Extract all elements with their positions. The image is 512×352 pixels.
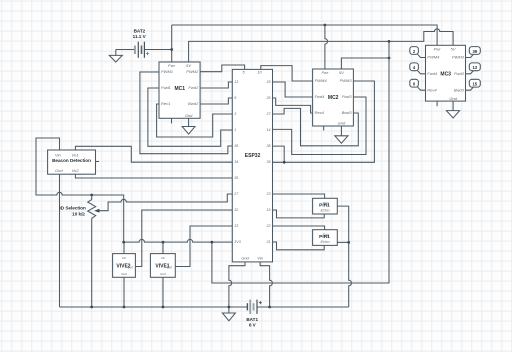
svg-text:BAT2: BAT2 [134,28,146,33]
svg-text:Out: Out [167,265,172,269]
node flag 4 (MC3 Fwd4) [410,63,426,74]
resistor R1 ID Selection potentiometer [60,194,233,307]
ground (ESP32 / BAT1) [222,313,235,321]
svg-text:1: 1 [234,128,236,132]
op-amp MC1 (motor controller box) [159,62,200,118]
wire MC1 Fwd2 to ESP32 pin 13 [200,82,232,88]
node junction BAT1+ / ESP32 Vin [268,306,271,309]
svg-text:PWM2: PWM2 [186,69,199,74]
wire ESP32 Gnd to ground rail (hops 3V3 feed) [229,262,245,313]
svg-text:Vo2: Vo2 [72,168,80,173]
wire VIVE2 Vin stub [123,242,125,254]
svg-text:MC2: MC2 [328,95,339,101]
svg-text:Bwd3: Bwd3 [342,110,353,115]
wire MC2 Pwr riser (hops 5V rail) [325,25,328,69]
node junction VIVE1 Gnd [162,306,165,309]
svg-text:PWM3: PWM3 [340,78,353,83]
svg-text:BAT1: BAT1 [246,317,258,322]
svg-text:21: 21 [266,240,271,244]
node junction MC2 5V / spine [388,57,391,60]
svg-text:Fwd2: Fwd2 [188,85,199,90]
node junction MC2 Pwr on 11.1V rail [324,24,327,27]
svg-text:Pwr: Pwr [434,46,442,51]
svg-text:5V: 5V [339,70,344,75]
op-amp VIVE2 (sensor box) [113,254,136,278]
svg-text:Rev4: Rev4 [427,87,437,92]
node flag 15 (MC3 Bwd3) [466,79,481,90]
op-amp MC3 (motor controller box) [426,45,466,101]
svg-text:Bwd2: Bwd2 [188,101,199,106]
ground (MC2) [335,136,348,143]
wire Beacon Gnd down to ground rail [59,174,61,307]
wire Beacon Vin loop to pot top (hops Gnd wire) [36,138,124,242]
svg-text:PWM3: PWM3 [452,55,465,60]
svg-text:23: 23 [266,192,271,196]
wire ground rail (bottom) [60,306,349,308]
svg-text:Fwd3: Fwd3 [454,71,465,76]
wire MC1 PWM1 to ESP32 pin 36 [140,72,232,154]
wire MC2 unconnected stub [323,126,325,131]
wire ESP32 pin 38 tie [273,146,285,162]
wire VIVE2 Out to ESP32 pin 32 [135,210,232,267]
wire PIR Vcc down to 6V rail (hops 3V3 feed) [349,242,352,307]
wire MC3 unconnected stub [436,101,438,106]
svg-text:5V: 5V [451,46,456,51]
wire MC1 Gnd stub [188,118,190,126]
svg-text:Fwd3: Fwd3 [342,94,353,99]
svg-text:Pwr: Pwr [321,70,329,75]
wire MC1 5V to 5V rail to MC3 5V (hop at MC3 Pwr riser) [189,29,454,62]
svg-text:Vin: Vin [257,256,263,261]
wire ESP32 Vin to BAT1+ (hops 3V3 feed) [260,262,272,307]
svg-text:15: 15 [472,82,477,87]
svg-text:Echo: Echo [320,239,330,244]
svg-text:Gnd: Gnd [55,168,63,173]
svg-text:MC1: MC1 [175,86,186,92]
wire Beacon Vo2 to ESP32 pin 35 [75,174,232,178]
battery BAT2 [116,28,172,58]
svg-text:Pwr: Pwr [168,63,176,68]
svg-text:PWM4: PWM4 [315,78,328,83]
svg-text:14: 14 [267,128,271,132]
node flag 0 (MC3 Rev4) [410,79,426,90]
svg-text:32: 32 [234,208,238,212]
svg-text:22: 22 [266,224,271,228]
svg-text:34: 34 [234,160,238,164]
svg-text:Gnd: Gnd [121,272,127,276]
svg-text:13: 13 [472,65,477,70]
svg-text:3: 3 [234,112,236,116]
svg-text:Rev1: Rev1 [161,101,170,106]
wire ESP32 pin 10 to MC2 PWM4 [261,66,313,81]
svg-text:Fwd1: Fwd1 [161,85,171,90]
wire VIVE2 Gnd stub [123,277,125,307]
wire ESP32 pin 26 to MC2 Rev4 [273,98,313,113]
svg-text:ESP32: ESP32 [245,153,261,159]
battery BAT1 [246,300,262,328]
svg-text:Vin: Vin [55,152,61,157]
svg-text:Gnd: Gnd [185,113,193,118]
svg-text:Bwd3: Bwd3 [454,87,465,92]
wire MC3 Gnd stub [452,101,454,111]
svg-text:3V3: 3V3 [234,240,240,244]
svg-text:25: 25 [266,80,271,84]
svg-text:Fwd4: Fwd4 [315,94,326,99]
wire VIVE1 Out to ESP32 pin 33 [175,226,232,267]
svg-text:39: 39 [472,49,477,54]
op-amp PIR1 upper (sensor box) [313,198,338,214]
svg-text:Fwd4: Fwd4 [427,71,438,76]
wire ESP32 pin 22 to PIR1 lower Trig [273,226,325,230]
svg-text:Gnd: Gnd [241,256,249,261]
svg-text:Beacon Detection: Beacon Detection [52,158,91,163]
wire MC2 Fwd3 to ESP32 pin 14 [273,97,367,155]
wire MC2 5V stub [341,58,389,69]
svg-text:19: 19 [267,208,271,212]
node junction VIVE2 Vin [122,241,125,244]
wire 5V spine down right side to 3V3 feed [212,41,389,283]
wire Beacon unconnected stub [96,161,100,163]
op-amp PIR1 lower (sensor box) [313,230,338,246]
svg-text:Out: Out [127,265,132,269]
wire PIR1 upper Vcc stub [337,206,348,242]
node flag 39 (MC3 PWM3) [466,47,481,58]
wire VIVE1 Gnd stub [162,277,164,307]
svg-text:39: 39 [267,160,271,164]
op-amp Beacon Detection (sensor box) [48,150,96,174]
wire 11.1V top rail to MC3 Pwr [172,25,437,45]
wire 3V3 rail to ESP32 (hops VIVE out wires) [124,239,233,242]
svg-text:MC3: MC3 [440,72,451,78]
wire MC2 PWM3 to ESP32 pin 39 [273,81,375,162]
svg-text:Gnd: Gnd [449,96,457,101]
ground (MC1) [182,127,195,135]
op-amp MC2 (motor controller box) [313,69,354,126]
svg-text:36: 36 [234,144,238,148]
svg-text:Vo1: Vo1 [72,152,79,157]
node junction pin38/pin39 net [283,161,286,164]
svg-text:Rev4: Rev4 [315,110,325,115]
wire MC1 Fwd1 to ESP32 pin 1 [148,88,232,146]
wire ESP32 pin 19 to PIR1 upper Echo [273,210,325,218]
svg-text:11.1 V: 11.1 V [133,34,147,39]
svg-text:38: 38 [267,144,271,148]
op-amp VIVE1 (sensor box) [150,254,175,278]
node flag 2 (MC3 PWM4) [410,47,426,58]
svg-text:PWM1: PWM1 [161,69,173,74]
svg-text:Echo: Echo [320,208,330,213]
wire MC2 Gnd stub [340,126,342,136]
svg-text:9: 9 [234,96,236,100]
svg-text:13: 13 [234,80,238,84]
wire ESP32 pin 23 to PIR1 upper Trig [273,194,325,198]
svg-text:35: 35 [234,176,238,180]
node junction 3V3 spine branch [211,241,214,244]
svg-text:Gnd: Gnd [338,121,346,126]
ground (MC3) [446,111,459,118]
svg-text:33: 33 [234,224,238,228]
wire MC2 Bwd3 to ESP32 pin 27 [273,108,359,145]
wire MC1 PWM2 to ESP32 pin 5 [200,65,245,72]
wire BAT2+ to 11.1V rail and MC1 Pwr [171,25,173,62]
node junction BAT2+ [170,48,173,51]
wire ESP32 pin 21 to PIR1 lower Echo [273,242,325,250]
wire MC1 Rev1 to ESP32 pin 3 [157,104,233,137]
wire ESP32 pin 25 to MC2 Fwd4 [273,82,313,97]
ground (BAT2) [109,50,122,63]
svg-text:10: 10 [257,70,262,75]
node junction pot bottom [90,306,93,309]
wire PIR1 lower Vcc stub [337,241,348,243]
node junction ESP32 Gnd / BAT1- [228,306,231,309]
node junction 5V rail / spine [388,40,391,43]
op-amp U1 ESP32 (microcontroller box) [232,69,272,262]
node junction VIVE1 Vin [162,241,165,244]
wire Beacon Vo1 to ESP32 pin 34 [75,146,232,162]
node junction VIVE2 Gnd [123,306,126,309]
svg-text:26: 26 [266,96,271,100]
svg-text:Vin: Vin [122,256,127,260]
node junction PIR Vcc [347,241,350,244]
wire VIVE1 Vin stub [162,242,164,254]
wire MC1 unconnected stub [171,118,173,123]
svg-text:Vin: Vin [161,256,166,260]
node flag 13 (MC3 Fwd3) [466,63,481,74]
node junction pot top [90,194,93,197]
svg-text:6 V: 6 V [249,323,257,328]
wire MC1 Bwd2 to ESP32 pin 9 [200,98,232,104]
svg-text:Gnd: Gnd [160,272,166,276]
svg-text:PWM4: PWM4 [427,55,440,60]
svg-text:5V: 5V [186,63,191,68]
svg-text:ID Selection: ID Selection [60,206,86,211]
svg-text:10 kΩ: 10 kΩ [72,211,85,216]
